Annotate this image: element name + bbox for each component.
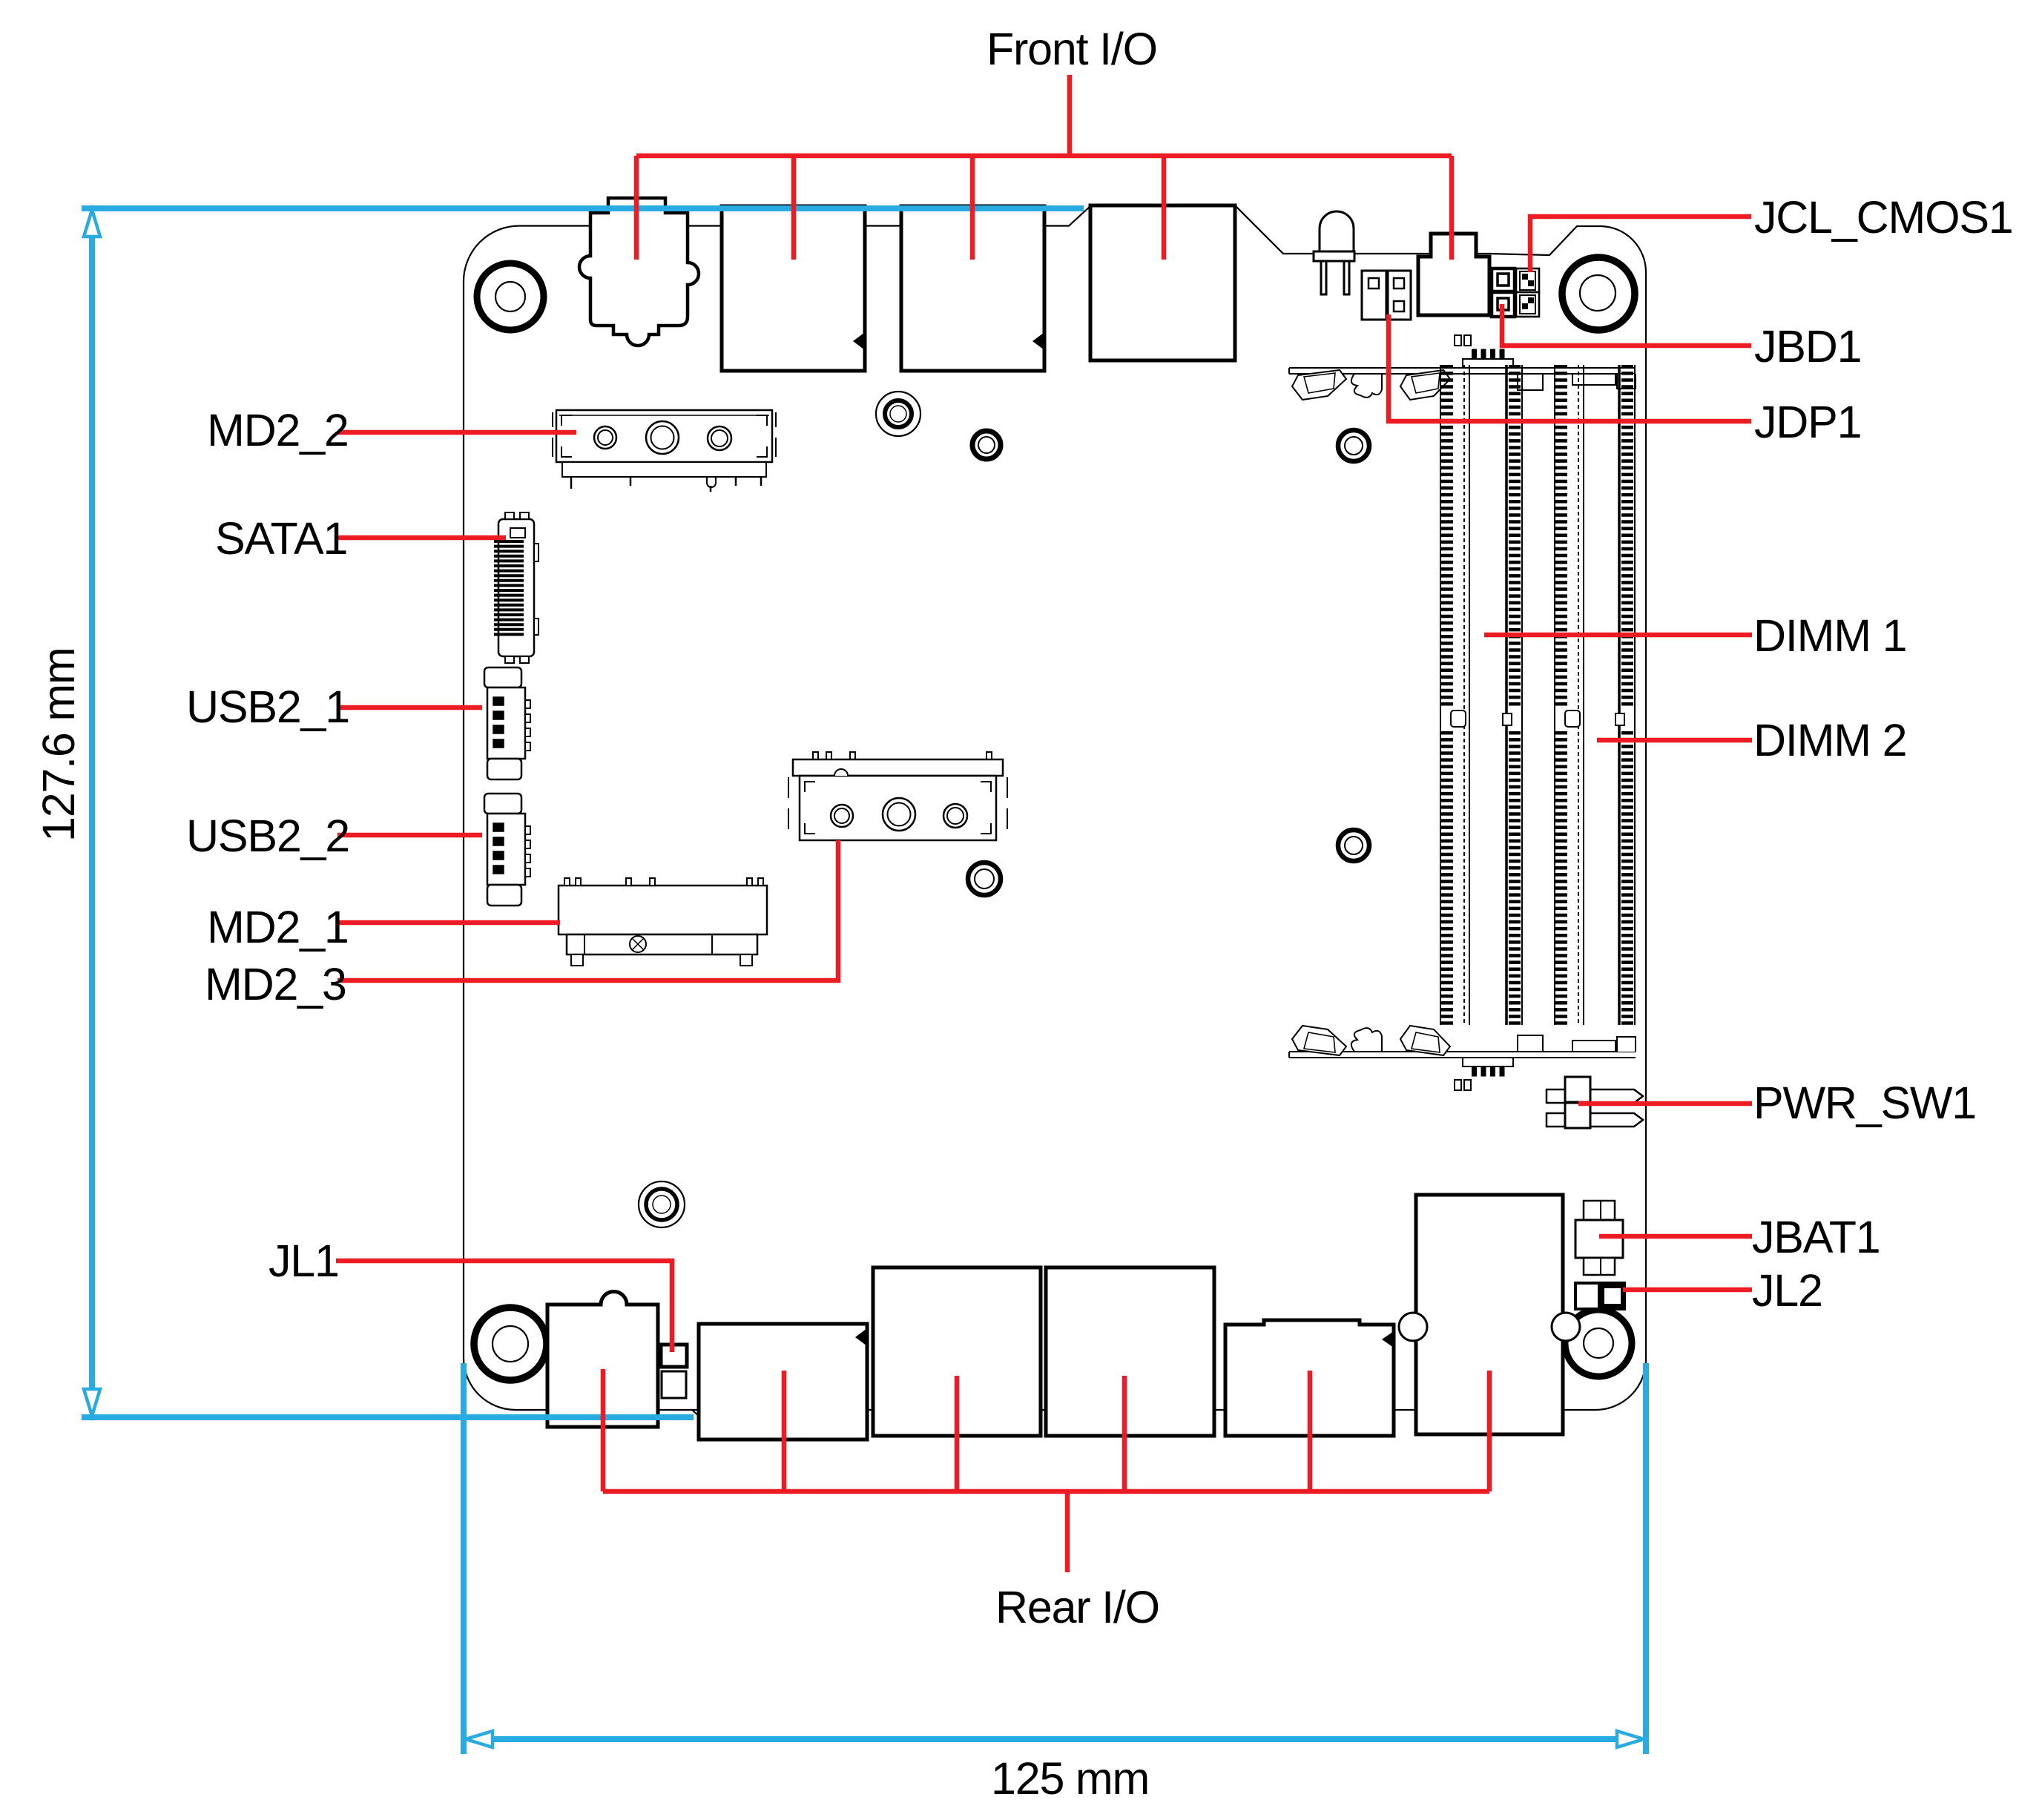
rear HDMI pair left: [873, 1267, 1041, 1436]
connector USB2_2: [484, 794, 530, 906]
PWR_SW1 callout: [1578, 1101, 1752, 1107]
mounting hole bottom-left: [474, 1308, 547, 1380]
standoff ring D (left of DIMM top): [1338, 430, 1369, 461]
front HDMI rect: [1090, 205, 1235, 360]
front USB rect 1: [722, 206, 865, 371]
DIMM 2 callout: [1597, 738, 1752, 743]
DIMM 1 callout: [1484, 633, 1752, 638]
Front I/O callout: [636, 75, 1452, 260]
svg-text:JL2: JL2: [1752, 1265, 1822, 1316]
connector MD2_3: [788, 752, 1007, 840]
rear mini-DP: [1225, 1320, 1394, 1436]
JBAT1 callout: [1599, 1234, 1752, 1239]
PWR_SW1 header: [1547, 1077, 1643, 1128]
rear USB stack: [699, 1324, 867, 1440]
svg-text:Front I/O: Front I/O: [987, 24, 1157, 74]
svg-text:DIMM 2: DIMM 2: [1753, 715, 1906, 765]
jumper JL1: [661, 1345, 687, 1398]
svg-text:JBAT1: JBAT1: [1752, 1212, 1880, 1262]
jumper JCL_CMOS1: [1516, 268, 1539, 317]
jumper JBD1: [1492, 268, 1515, 317]
svg-text:MD2_3: MD2_3: [205, 959, 346, 1009]
mounting hole top-left: [477, 263, 544, 330]
svg-text:MD2_1: MD2_1: [207, 902, 349, 952]
front USB rect 2: [901, 206, 1044, 371]
dimension tick top (board top edge): [82, 205, 1084, 211]
svg-text:Rear I/O: Rear I/O: [995, 1582, 1159, 1632]
svg-text:JL1: JL1: [269, 1236, 339, 1286]
svg-text:MD2_2: MD2_2: [207, 405, 349, 455]
rear HDMI pair right: [1046, 1267, 1214, 1436]
svg-text:JDP1: JDP1: [1754, 397, 1861, 447]
JL2 callout: [1623, 1287, 1752, 1293]
power jack (rear): [547, 1292, 658, 1427]
extension line bottom-left corner: [461, 1363, 467, 1754]
arrow right: [1617, 1731, 1644, 1747]
svg-text:127.6 mm: 127.6 mm: [33, 647, 84, 842]
svg-text:USB2_1: USB2_1: [186, 682, 349, 732]
JDP1 callout: [1389, 314, 1751, 421]
jumper JDP1: [1362, 271, 1411, 320]
USB2_1 callout: [337, 705, 482, 710]
standoff ring F (above power jack): [639, 1181, 685, 1227]
connector SATA1: [498, 512, 538, 663]
horizontal dimension line 125mm: [469, 1736, 1641, 1742]
DIMM slot rails (toothed contacts): [1440, 365, 1635, 1025]
extension line bottom-right corner: [1643, 1363, 1649, 1754]
wire notch near power jack: [692, 1410, 700, 1417]
svg-text:JCL_CMOS1: JCL_CMOS1: [1754, 192, 2013, 243]
standoff ring C (below MD2_3): [968, 863, 1001, 895]
MD2_1 callout: [337, 920, 560, 926]
battery holder JBAT1: [1575, 1201, 1623, 1275]
front panel header tower: [1418, 234, 1489, 315]
jumper JL2: [1575, 1282, 1626, 1310]
Rear I/O callout: [603, 1369, 1489, 1572]
svg-text:DIMM 1: DIMM 1: [1753, 610, 1906, 661]
svg-text:SATA1: SATA1: [215, 513, 347, 564]
JCL_CMOS1 callout: [1530, 217, 1751, 272]
mounting hole bottom-right: [1565, 1310, 1632, 1376]
rear RJ45: [1399, 1195, 1580, 1434]
connector MD2_2: [553, 410, 776, 492]
JBD1 callout: [1502, 304, 1751, 346]
audio jack (front): [579, 198, 699, 346]
svg-text:PWR_SW1: PWR_SW1: [1753, 1078, 1976, 1128]
JL1 callout: [336, 1261, 672, 1352]
MD2_3 callout: [337, 840, 838, 980]
SATA1 callout: [337, 535, 506, 541]
arrow left: [466, 1731, 493, 1747]
standoff ring A (below front rects): [876, 392, 920, 436]
standoff ring B: [972, 431, 1001, 459]
svg-text:USB2_2: USB2_2: [186, 811, 349, 861]
LED D1: [1314, 211, 1354, 294]
arrow up: [84, 210, 100, 237]
arrow down: [84, 1389, 100, 1416]
dimension tick bottom (board bottom edge): [82, 1414, 694, 1420]
DIMM bottom latch assembly: [1289, 1026, 1636, 1090]
svg-text:JBD1: JBD1: [1754, 321, 1861, 372]
standoff ring E (left of DIMM bottom): [1338, 830, 1369, 861]
vertical dimension line 127.6mm: [89, 213, 95, 1413]
mounting hole top-right: [1562, 257, 1635, 330]
DIMM sockets: [1289, 335, 1636, 1090]
connector MD2_1: [559, 878, 767, 966]
USB2_2 callout: [337, 833, 482, 838]
connector USB2_1: [484, 667, 530, 779]
svg-text:125 mm: 125 mm: [991, 1753, 1149, 1804]
MD2_2 callout: [337, 430, 576, 435]
board outline: [464, 206, 1646, 1410]
DIMM top latch assembly: [1289, 335, 1636, 400]
